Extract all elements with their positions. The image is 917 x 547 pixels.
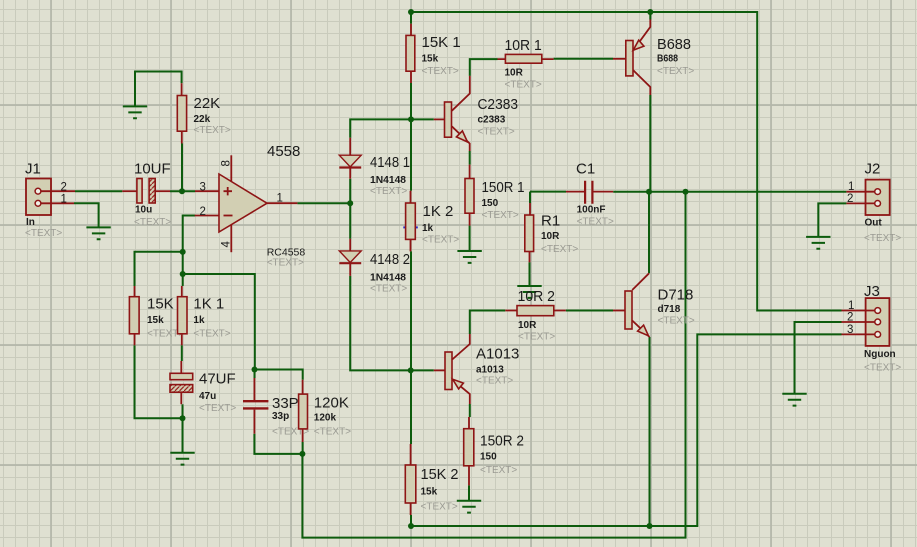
svg-text:150R 2: 150R 2	[480, 433, 524, 450]
pin circle J3.3	[875, 332, 881, 338]
wire C2383 emitter to 150R1	[469, 151, 471, 165]
svg-text:c2383: c2383	[478, 115, 506, 126]
ground below R1	[517, 286, 541, 298]
pins 15K2	[410, 444, 412, 515]
pins 120K	[302, 380, 304, 442]
wire top power rail to J3 pin1	[411, 12, 842, 311]
svg-text:47UF: 47UF	[199, 371, 236, 388]
pin D718 emitter diagonal	[632, 321, 649, 338]
resistor 1K 2	[406, 203, 416, 239]
node A junction 10UF/22K/op-amp	[179, 188, 185, 194]
svg-text:10R: 10R	[541, 231, 560, 242]
pins J3	[842, 311, 875, 335]
transistor A1013 emitter arrow	[453, 379, 464, 389]
wire diode top to node B and C2383 base	[350, 119, 434, 137]
svg-text:120k: 120k	[314, 413, 337, 424]
ground below 150R1	[457, 251, 481, 263]
svg-text:1: 1	[61, 194, 67, 206]
svg-text:<TEXT>: <TEXT>	[134, 217, 171, 228]
capacitor C1 plates	[585, 181, 592, 204]
op-amp plus symbol	[224, 187, 233, 195]
wire B688 collector down to output node	[649, 95, 651, 192]
svg-text:B688: B688	[657, 54, 678, 65]
transistor D718 base bar	[625, 291, 632, 329]
node B junction 15K1/diode/C2383	[408, 116, 414, 122]
wire 15K2 bottom to bottom rail to J3 pin3	[411, 334, 842, 526]
svg-text:4148 2: 4148 2	[370, 251, 410, 268]
svg-text:22K: 22K	[194, 95, 221, 112]
svg-text:10u: 10u	[135, 205, 152, 216]
svg-text:1: 1	[848, 181, 854, 193]
pin circle J1.1	[35, 200, 41, 206]
pin circle J3.1	[875, 308, 881, 314]
pins 1K2	[410, 191, 412, 252]
svg-text:<TEXT>: <TEXT>	[421, 502, 458, 513]
svg-text:33p: 33p	[272, 411, 289, 422]
svg-text:<TEXT>: <TEXT>	[480, 465, 517, 476]
transistor D718 emitter arrow	[638, 325, 649, 336]
svg-text:<TEXT>: <TEXT>	[658, 316, 695, 327]
svg-text:<TEXT>: <TEXT>	[482, 210, 519, 221]
wire node C2 right to 33P/120K node	[183, 274, 255, 370]
pins C1	[566, 191, 613, 193]
wire C2383 collector column to 10R1 left	[470, 59, 498, 76]
pin J1.2	[41, 190, 75, 192]
pins 22K	[181, 83, 183, 143]
svg-text:15k: 15k	[422, 54, 439, 65]
junction 47UF bottom/15K	[180, 415, 186, 421]
wire 150R2 bottom to ground	[468, 485, 470, 500]
pin A1013 emitter diagonal	[452, 379, 470, 404]
svg-text:22k: 22k	[194, 114, 211, 125]
wire D718 collector up to output node	[648, 192, 650, 274]
diode 4148 1 triangle	[339, 155, 361, 167]
node D junction 1K2/diode/A1013/15K2	[408, 367, 414, 373]
svg-text:1k: 1k	[193, 315, 205, 326]
ground below J1	[86, 227, 110, 239]
wire R1 top drop	[529, 192, 531, 203]
svg-text:2: 2	[61, 182, 67, 194]
wire diode chain mid	[349, 179, 351, 239]
resistor 15K	[129, 297, 139, 334]
pin op-amp 4	[230, 225, 232, 252]
transistor C2383 base bar	[445, 102, 452, 137]
svg-text:J3: J3	[864, 283, 880, 300]
diode 4148 2 triangle	[339, 251, 361, 263]
wire J2 pin2 to ground	[818, 203, 846, 237]
svg-text:150: 150	[482, 198, 499, 209]
svg-text:100nF: 100nF	[577, 205, 606, 216]
svg-text:<TEXT>: <TEXT>	[518, 332, 555, 343]
svg-text:3: 3	[847, 324, 853, 336]
pin op-amp 8	[230, 155, 232, 181]
ground below 150R2	[457, 501, 481, 513]
junction output/B688/D718	[646, 189, 652, 195]
wire 1K2 bottom to node D	[410, 251, 412, 444]
wire output left segment to C1	[530, 191, 566, 193]
svg-text:10R: 10R	[518, 320, 537, 331]
pin B688 collector diagonal	[633, 70, 650, 95]
pin circle J2.1	[875, 189, 881, 195]
svg-text:<TEXT>: <TEXT>	[577, 217, 614, 228]
capacitor 47UF top plate	[170, 373, 193, 379]
pin op-amp in- 2	[195, 215, 219, 217]
resistor 22K	[177, 96, 186, 132]
pin D718 base	[613, 310, 625, 312]
pin D718 collector diagonal	[632, 273, 649, 290]
wire diode bottom to A1013 base node D	[350, 276, 434, 371]
pin A1013 base	[434, 369, 445, 371]
svg-text:<TEXT>: <TEXT>	[478, 127, 515, 138]
pins 1K1	[181, 286, 183, 345]
wire 10UF right to node A	[170, 190, 195, 192]
pin circle J1.2	[35, 188, 41, 194]
wire B688 emitter top link	[649, 12, 651, 20]
wire 15K bottom to 47UF bottom node	[135, 345, 183, 418]
pins 10R1	[498, 58, 554, 60]
svg-text:Nguon: Nguon	[864, 349, 896, 360]
pin J1.1	[41, 202, 74, 204]
wire 150R1 bottom to ground	[469, 226, 471, 251]
svg-text:150: 150	[480, 452, 497, 463]
node C junction in-/15K	[180, 249, 186, 255]
origin marker 1K2 (blue)	[403, 226, 418, 228]
wire D718 emitter down to bottom rail	[649, 337, 651, 526]
resistor 10R 1	[505, 54, 541, 63]
junction D718 emitter bottom rail	[647, 523, 653, 529]
svg-text:Out: Out	[865, 218, 883, 229]
svg-text:1K 2: 1K 2	[423, 203, 454, 220]
svg-text:In: In	[26, 217, 35, 228]
junction output/feedback	[683, 189, 689, 195]
pin op-amp in+ 3	[195, 190, 219, 192]
svg-text:4148 1: 4148 1	[370, 154, 410, 171]
svg-text:D718: D718	[658, 287, 694, 304]
pin circle J2.2	[875, 201, 881, 207]
pins 47UF	[180, 361, 182, 404]
pin 10UF left	[122, 190, 137, 192]
resistor 10R 2	[517, 306, 554, 316]
wire 33P top stub link	[254, 370, 256, 379]
svg-text:<TEXT>: <TEXT>	[541, 244, 578, 255]
wire 1K1 bottom to 47UF	[181, 345, 183, 361]
connector J2 body	[866, 180, 890, 215]
wire 10R1 right to B688 base	[554, 58, 613, 60]
svg-text:<TEXT>: <TEXT>	[864, 363, 901, 374]
svg-text:4: 4	[221, 241, 233, 248]
svg-text:2: 2	[200, 206, 206, 218]
wire 120K bottom to feedback node	[302, 442, 304, 454]
svg-text:<TEXT>: <TEXT>	[370, 186, 407, 197]
pins 10R2	[505, 310, 566, 312]
pin B688 base	[613, 58, 626, 60]
pins J2	[846, 192, 874, 204]
resistor 1K 1	[178, 297, 188, 334]
svg-text:<TEXT>: <TEXT>	[657, 66, 694, 77]
svg-text:33P: 33P	[272, 395, 299, 412]
resistor 150R 1	[465, 179, 474, 214]
connector J3 body	[866, 298, 890, 346]
svg-text:a1013: a1013	[476, 365, 504, 376]
pins 150R1	[469, 165, 471, 226]
svg-text:J2: J2	[865, 161, 881, 178]
wire 33P bottom to feedback node	[254, 434, 302, 454]
wire A1013 emitter to 150R2	[469, 404, 471, 417]
ground below J2	[806, 237, 830, 249]
pin C2383 base	[434, 118, 445, 120]
pin 10UF right	[155, 190, 170, 192]
svg-text:R1: R1	[541, 213, 560, 230]
svg-text:<TEXT>: <TEXT>	[194, 125, 231, 136]
svg-text:d718: d718	[658, 304, 681, 315]
svg-text:B688: B688	[657, 36, 691, 53]
diode 4148 2 cathode bar	[339, 262, 361, 264]
capacitor 10UF right plate hatched	[149, 179, 155, 204]
svg-text:10UF: 10UF	[134, 160, 171, 177]
svg-text:150R 1: 150R 1	[482, 179, 525, 196]
pins 150R2	[468, 417, 470, 485]
transistor B688 base bar	[626, 41, 633, 76]
svg-text:15K 2: 15K 2	[421, 466, 459, 483]
svg-text:<TEXT>: <TEXT>	[422, 235, 459, 246]
svg-text:47u: 47u	[199, 391, 216, 402]
capacitor 47UF bottom plate hatched	[170, 385, 193, 393]
wire op-amp out to diode node	[297, 202, 350, 204]
pins 15K1	[410, 24, 412, 83]
ground below J3	[782, 394, 806, 406]
resistor 150R 2	[464, 429, 474, 466]
svg-text:15K: 15K	[147, 296, 174, 313]
svg-text:<TEXT>: <TEXT>	[505, 80, 542, 91]
wire node C to 1K1 node	[182, 252, 184, 286]
pins R1	[529, 203, 532, 262]
wire J1 pin2 to 10UF	[75, 190, 122, 192]
svg-text:15k: 15k	[147, 315, 164, 326]
svg-text:1: 1	[848, 300, 854, 312]
svg-text:1N4148: 1N4148	[370, 175, 406, 186]
wire 33P node to 120K top	[255, 370, 303, 380]
resistor R1	[525, 215, 534, 252]
wire 22K bottom to node A	[181, 144, 183, 192]
svg-text:4558: 4558	[267, 143, 300, 160]
wire 15K1 bottom to node B	[410, 83, 412, 191]
transistor B688 emitter arrow	[633, 40, 644, 50]
junction op-amp out / diodes	[347, 200, 353, 206]
wire output node across to J2 pin1	[613, 191, 846, 193]
svg-text:1K 1: 1K 1	[193, 296, 224, 313]
capacitor 33P plates	[243, 401, 268, 408]
pins diode 4148 2	[349, 239, 351, 276]
wire J1 pin1 to ground	[74, 203, 99, 227]
pin C2383 collector diagonal	[452, 76, 470, 111]
pin B688 emitter diagonal	[634, 20, 651, 50]
resistor 120K	[299, 394, 308, 429]
svg-text:<TEXT>: <TEXT>	[370, 284, 407, 295]
pin A1013 collector diagonal	[452, 334, 470, 360]
svg-text:<TEXT>: <TEXT>	[267, 257, 304, 268]
svg-text:2: 2	[847, 193, 853, 205]
resistor 15K 1	[406, 35, 415, 71]
svg-text:1k: 1k	[422, 223, 434, 234]
wire feedback: output node down, across, up to 120K node	[302, 192, 685, 538]
svg-text:1: 1	[277, 192, 283, 204]
svg-text:3: 3	[200, 182, 206, 194]
wire 22K top to ground	[135, 72, 182, 107]
svg-text:10R 2: 10R 2	[518, 288, 556, 305]
svg-text:<TEXT>: <TEXT>	[199, 403, 236, 414]
svg-text:10R 1: 10R 1	[505, 37, 542, 54]
transistor A1013 base bar	[445, 352, 452, 390]
connector J1 body	[26, 179, 51, 216]
node C2 junction 1K1/33P branch	[180, 271, 186, 277]
svg-text:15k: 15k	[421, 487, 438, 498]
svg-text:8: 8	[221, 160, 233, 166]
svg-text:<TEXT>: <TEXT>	[864, 233, 901, 244]
diode 4148 1 cathode bar	[339, 166, 361, 168]
svg-text:<TEXT>: <TEXT>	[314, 427, 351, 438]
svg-text:C2383: C2383	[478, 96, 519, 113]
wire op-amp in- to node C	[183, 216, 195, 252]
pins 33P	[253, 378, 255, 434]
svg-text:2: 2	[847, 312, 853, 324]
wire 15K1 top link	[410, 12, 412, 24]
wire J3 pin2 to ground	[795, 322, 842, 394]
svg-text:120K: 120K	[314, 395, 349, 412]
svg-text:<TEXT>: <TEXT>	[25, 228, 62, 239]
svg-text:15K 1: 15K 1	[422, 34, 461, 51]
junction 33P/feedback branch	[252, 367, 258, 373]
junction 120K bottom/feedback	[299, 451, 305, 457]
junction 15K2 bottom rail	[408, 523, 414, 529]
junction top rail at B688 emitter	[647, 9, 653, 15]
ground below 47UF	[170, 453, 194, 465]
transistor C2383 emitter arrow	[456, 131, 467, 142]
wire 10R2 right to D718 base	[566, 310, 613, 312]
svg-text:A1013: A1013	[476, 346, 519, 363]
svg-text:1N4148: 1N4148	[370, 273, 406, 284]
svg-text:<TEXT>: <TEXT>	[422, 66, 459, 77]
svg-text:10R: 10R	[505, 68, 524, 79]
pin C2383 emitter diagonal	[452, 126, 470, 151]
pins 15K	[134, 286, 136, 345]
svg-text:<TEXT>: <TEXT>	[193, 328, 230, 339]
svg-text:J1: J1	[25, 161, 41, 178]
wire R1 bottom to ground	[529, 262, 531, 286]
ground near 22K	[123, 106, 147, 118]
wire 47UF bottom to ground	[182, 404, 184, 452]
pin op-amp out 1	[267, 202, 297, 204]
pins diode 4148 1	[349, 138, 351, 179]
wire node C to 15K top	[135, 252, 183, 286]
op-amp minus symbol	[224, 215, 233, 217]
svg-text:C1: C1	[576, 161, 595, 178]
capacitor 10UF left plate	[137, 179, 142, 204]
wire A1013 collector to 10R2 left	[470, 311, 506, 335]
op-amp U1 4558 triangle	[219, 174, 267, 232]
pin circle J3.2	[875, 319, 881, 325]
junction top rail at 15K1	[408, 9, 414, 15]
resistor 15K 2	[405, 465, 416, 503]
svg-text:<TEXT>: <TEXT>	[476, 376, 513, 387]
